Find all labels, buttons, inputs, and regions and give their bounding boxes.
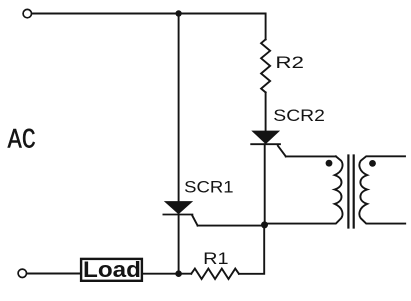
T1 secondary phasing dot bbox=[369, 160, 376, 167]
wire load to node bbox=[143, 273, 191, 275]
wire left vertical (SCR1 anode) bbox=[178, 14, 180, 202]
node junction bottom bbox=[175, 270, 182, 277]
svg-text:AC: AC bbox=[8, 126, 36, 157]
thyristor SCR1 bbox=[163, 202, 197, 226]
node junction B bbox=[261, 221, 268, 228]
load box bbox=[81, 259, 142, 281]
T1 core line 1 bbox=[347, 156, 349, 228]
transformer T1 primary winding bbox=[265, 156, 343, 223]
svg-text:SCR2: SCR2 bbox=[273, 106, 325, 125]
resistor R2 bbox=[261, 39, 270, 92]
thyristor SCR2 bbox=[251, 131, 286, 156]
wire R2 top to corner bbox=[265, 14, 267, 40]
svg-text:R1: R1 bbox=[203, 249, 228, 268]
T1 core line 2 bbox=[353, 156, 355, 228]
svg-text:SCR1: SCR1 bbox=[184, 178, 233, 197]
node junction A (top) bbox=[175, 10, 181, 16]
wire SCR1 cathode down bbox=[178, 215, 180, 274]
wire SCR2 cathode down to node B bbox=[264, 144, 266, 225]
wire SCR1 gate to node B bbox=[198, 225, 265, 227]
wire top horizontal bbox=[32, 13, 266, 15]
svg-text:R2: R2 bbox=[275, 53, 304, 72]
terminal bottom-left bbox=[18, 269, 26, 277]
wire gate SCR2 to transformer primary top lead bbox=[286, 155, 336, 157]
T1 primary phasing dot bbox=[326, 160, 333, 167]
resistor R1 bbox=[191, 269, 239, 279]
wire R1 to corner and up to node B bbox=[239, 225, 264, 274]
terminal top-left bbox=[23, 9, 31, 17]
wire bottom-left to load bbox=[27, 273, 80, 275]
wire SCR2 anode up to R2 bbox=[265, 92, 267, 131]
svg-text:Load: Load bbox=[83, 257, 141, 282]
transformer T1 secondary winding bbox=[359, 156, 405, 223]
